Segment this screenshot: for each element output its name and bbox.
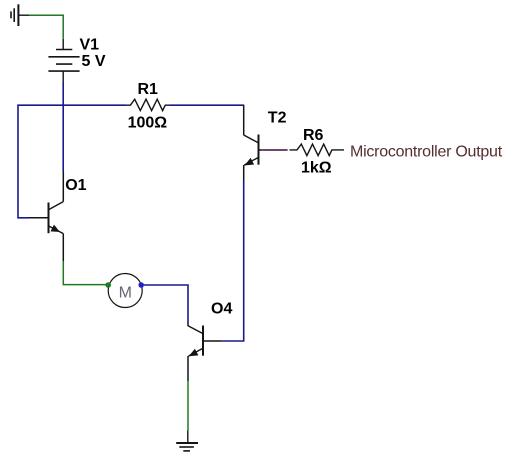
svg-text:O1: O1 (65, 177, 86, 194)
O4 emitter arrow (190, 350, 198, 356)
battery V1 (48, 39, 79, 82)
wire battery bottom down through rail to O1 collector (blue) (62, 82, 64, 171)
transistor T2 (mirrored NPN) (244, 105, 263, 181)
motor terminal right (blue dot) (138, 282, 144, 288)
svg-text:5 V: 5 V (82, 53, 106, 70)
resistor R6 (290, 144, 345, 156)
resistor R1 (127, 99, 170, 110)
T2 emitter arrow (246, 159, 254, 165)
motor terminal left (green dot) (105, 282, 111, 288)
svg-text:V1: V1 (80, 36, 100, 53)
wire T2 emitter down to O4 base (blue) (221, 181, 244, 341)
svg-text:R6: R6 (303, 127, 324, 144)
svg-text:R1: R1 (138, 81, 159, 98)
wire rail right of R1 to T2 collector corner (blue) (170, 104, 245, 106)
wire motor to O4 collector (blue) (144, 285, 188, 322)
svg-text:Microcontroller Output: Microcontroller Output (350, 144, 503, 161)
wire +rail left segment (blue) (18, 105, 127, 218)
svg-text:O4: O4 (211, 301, 232, 318)
svg-text:100Ω: 100Ω (128, 115, 168, 132)
wire O1 emitter to motor (green) (63, 261, 105, 285)
motor M1 (108, 274, 142, 308)
wire ground to battery top (green) (29, 15, 63, 39)
wire T2 base to R6 (purple) (262, 149, 287, 151)
svg-text:M: M (119, 285, 132, 302)
transistor O1 (NPN) (30, 171, 64, 261)
svg-text:1kΩ: 1kΩ (301, 159, 332, 176)
ground GND2 (bottom) (176, 431, 198, 451)
O1 emitter arrow (51, 226, 59, 232)
svg-text:T2: T2 (268, 110, 287, 127)
wire O4 emitter to ground (green) (187, 381, 189, 431)
ground GND1 (top-left, rotated) (11, 4, 29, 26)
transistor O4 (NPN) (188, 322, 221, 381)
